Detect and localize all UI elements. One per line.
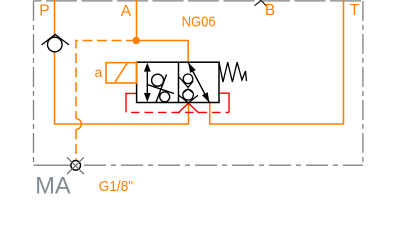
svg-text:B: B: [265, 2, 275, 19]
svg-text:MA: MA: [35, 173, 71, 199]
svg-text:a: a: [95, 65, 103, 81]
svg-text:G1/8": G1/8": [99, 178, 133, 195]
svg-text:T: T: [350, 2, 360, 19]
svg-text:A: A: [121, 3, 132, 20]
svg-text:P: P: [39, 2, 49, 19]
svg-text:NG06: NG06: [182, 14, 216, 30]
